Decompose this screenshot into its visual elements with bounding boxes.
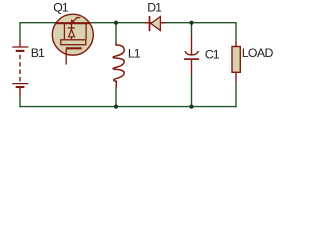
svg-text:Q1: Q1 (53, 0, 69, 14)
svg-text:C1: C1 (205, 48, 220, 62)
svg-text:B1: B1 (31, 46, 45, 60)
svg-text:D1: D1 (147, 0, 162, 14)
svg-text:LOAD: LOAD (242, 46, 274, 60)
svg-text:L1: L1 (128, 46, 141, 60)
